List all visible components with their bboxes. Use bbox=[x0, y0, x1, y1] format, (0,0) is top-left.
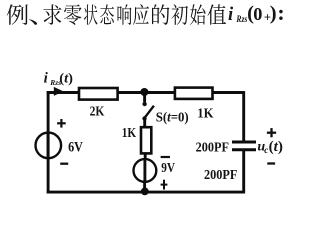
voltage source U1 6V (circle) bbox=[36, 133, 62, 159]
wire: 6V source vertical pass-through bbox=[47, 132, 50, 159]
switch S upper contact dot bbox=[142, 102, 146, 106]
switch S lower contact dot bbox=[142, 116, 146, 120]
svg-text:0: 0 bbox=[253, 4, 262, 24]
capacitor C1 top plate bbox=[232, 141, 256, 144]
svg-text:(t): (t) bbox=[269, 139, 283, 155]
svg-text:i: i bbox=[44, 70, 49, 86]
node C junction dot (bottom middle) bbox=[141, 188, 149, 196]
current arrow for i_Rzs(t) bbox=[54, 87, 64, 96]
capacitor C1 bottom plate bbox=[232, 148, 256, 151]
label u_c plus sign bbox=[267, 132, 276, 134]
node B junction dot (top middle) bbox=[140, 88, 148, 96]
svg-text:i: i bbox=[228, 5, 234, 25]
wire: 9V source vertical pass-through bbox=[143, 160, 146, 182]
svg-text:200PF: 200PF bbox=[204, 168, 237, 183]
wire: top segment 2K to 1K via node B bbox=[118, 91, 176, 94]
wire: top segment 1K to top-right corner bbox=[212, 91, 244, 94]
svg-text:2K: 2K bbox=[90, 104, 105, 119]
svg-text:1K: 1K bbox=[197, 105, 213, 120]
voltage source U2 9V (circle) bbox=[134, 159, 157, 182]
svg-text:(t): (t) bbox=[59, 71, 73, 86]
svg-text:200PF: 200PF bbox=[196, 140, 229, 155]
wire: middle branch stub from 1K vertical to 9V source bbox=[144, 153, 147, 160]
wire: top segment from node A to 2K bbox=[47, 91, 80, 94]
wire: left branch with 6V source bbox=[47, 91, 50, 193]
title: 例、求零状态响应的初始值 (CJK glyph outlines) bbox=[7, 4, 226, 25]
wire: middle branch stub from node B down to switch top contact bbox=[143, 94, 146, 103]
label 9V minus sign bbox=[161, 156, 170, 158]
label 9V plus sign bbox=[161, 184, 168, 186]
label 6V minus sign bbox=[60, 163, 68, 165]
label u_c minus sign bbox=[267, 162, 275, 164]
svg-text:S(t=0): S(t=0) bbox=[156, 110, 189, 125]
wire: right branch lower (capacitor to bottom wire) bbox=[242, 151, 245, 193]
svg-text:Rzs: Rzs bbox=[236, 15, 248, 25]
title math: i_Rzs(0+): bbox=[228, 0, 285, 25]
svg-text::: : bbox=[277, 0, 284, 25]
switch S blade bbox=[144, 106, 154, 119]
resistor R1 2K (box) bbox=[79, 88, 118, 100]
wire: bottom return wire bbox=[47, 191, 245, 194]
resistor R3 1K vertical (box) bbox=[141, 127, 151, 153]
svg-text:6V: 6V bbox=[68, 140, 83, 156]
label 6V plus sign bbox=[57, 122, 66, 124]
svg-text:1K: 1K bbox=[122, 125, 137, 140]
wire: middle branch stub from 9V source to bottom node C bbox=[143, 181, 146, 192]
wire: middle branch stub from switch lower contact to 1K vertical bbox=[143, 119, 146, 127]
svg-text:): ) bbox=[270, 3, 277, 25]
svg-text:9V: 9V bbox=[161, 161, 175, 176]
resistor R2 1K horizontal (box) bbox=[175, 88, 213, 99]
wire: right branch upper (down to capacitor) bbox=[242, 91, 245, 141]
